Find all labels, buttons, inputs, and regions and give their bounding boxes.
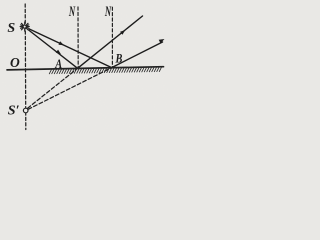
mirror hatching [49, 67, 161, 74]
wire: incident ray S to A [29, 30, 78, 68]
arrowhead on ray S-B [58, 41, 64, 45]
wire: incident ray S to B [29, 29, 111, 68]
normal N at A (dashed) [77, 7, 79, 68]
node S' (virtual image, open circle) [23, 108, 28, 113]
arrowhead on ray S-A [56, 50, 61, 55]
wire: reflected ray from A [78, 16, 143, 68]
svg-text:N: N [104, 4, 111, 20]
svg-text:O: O [10, 55, 20, 70]
svg-text:B: B [115, 50, 123, 65]
svg-text:S: S [7, 21, 15, 36]
arrowhead on reflected ray A [120, 30, 125, 35]
svg-text:S′: S′ [8, 104, 20, 119]
wire: vertical dashed axis through S and S' [24, 4, 27, 130]
arrowhead at end of reflected ray B [159, 39, 165, 43]
node S (light source star) [20, 22, 29, 31]
wire: reflected ray from B [112, 42, 163, 68]
svg-text:N: N [68, 4, 75, 20]
normal N at B (dashed) [111, 7, 113, 67]
paper background [0, 0, 179, 131]
svg-text:A: A [54, 56, 62, 71]
mirror surface line [7, 67, 164, 70]
wire: dashed extension S' to A [28, 68, 78, 108]
wire: dashed extension S' to B [28, 68, 112, 110]
